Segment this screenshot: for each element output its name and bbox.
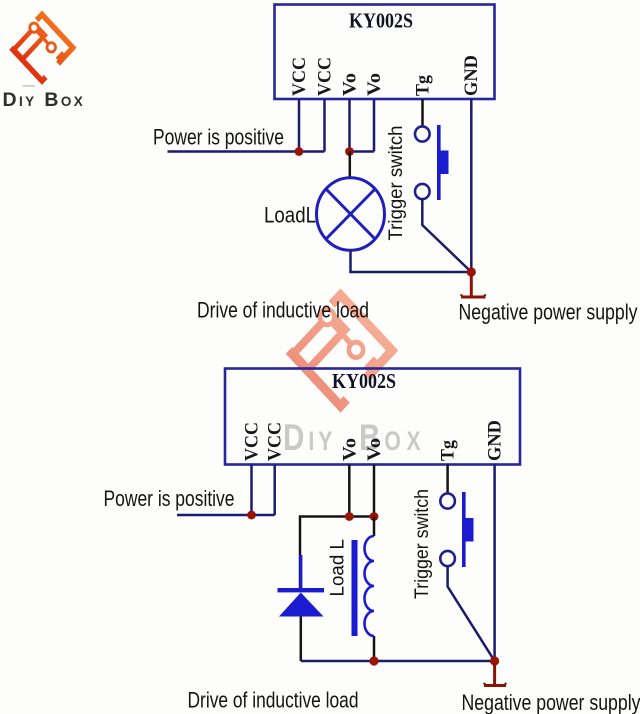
wire Vo2 drop U1 — [373, 99, 376, 152]
wire VCC1 drop U1 — [298, 99, 301, 152]
watermark logo mark (center) — [287, 292, 393, 406]
wire switch S1 bottom diagonal — [422, 199, 471, 272]
svg-text:Vo: Vo — [364, 438, 385, 461]
junction dot Vo1 (bottom) — [345, 512, 354, 521]
trigger switch S2 contact circles — [440, 493, 455, 566]
wire VCC1 drop U2 — [250, 465, 253, 516]
wire power bus bottom — [177, 514, 275, 517]
diode D1 flyback — [278, 555, 325, 617]
wire lamp feed — [349, 152, 352, 179]
wire switch S2 bottom diagonal — [448, 566, 495, 661]
trigger switch S1 contact circles — [415, 126, 430, 199]
wire power bus top — [168, 150, 325, 153]
wire GND drop U2 — [493, 465, 496, 662]
wire Vo2 drop U2 — [373, 465, 376, 517]
junction dot ground node (bottom) — [490, 656, 499, 665]
svg-text:Drive of inductive load: Drive of inductive load — [197, 298, 369, 323]
wire Vo1 drop U1 — [348, 99, 351, 152]
ground symbol (top) — [461, 274, 486, 297]
wire lamp bottom to ground bus — [351, 250, 472, 272]
junction dot ground node (top) — [467, 267, 476, 276]
svg-text:Tg: Tg — [413, 75, 434, 96]
svg-text:Vo: Vo — [364, 73, 385, 96]
svg-text:GND: GND — [485, 420, 506, 461]
trigger switch S2 actuator — [462, 492, 474, 567]
wire VCC2 drop U1 — [323, 99, 326, 152]
svg-text:VCC: VCC — [315, 57, 336, 96]
svg-text:Vo: Vo — [340, 438, 361, 461]
svg-text:LoadL: LoadL — [264, 203, 316, 228]
lamp Load L (circle-X) — [317, 178, 385, 251]
DiyBox logo mark top-left — [10, 13, 73, 81]
wire diode bottom lead — [300, 617, 303, 662]
svg-text:Negative power supply: Negative power supply — [462, 690, 640, 714]
svg-text:Trigger switch: Trigger switch — [412, 489, 433, 599]
DiyBox logo small dash — [23, 85, 36, 86]
ground symbol (bottom) — [484, 663, 507, 686]
junction dot inductor/ground bus — [369, 656, 378, 665]
svg-text:Drive of inductive load: Drive of inductive load — [188, 688, 359, 713]
wire ground bus bottom — [301, 660, 495, 663]
svg-text:Tg: Tg — [438, 440, 459, 461]
trigger switch S1 actuator — [437, 125, 449, 200]
wire Vo1 drop U2 — [348, 465, 351, 517]
wire Vo bus / diode branch top (bottom circuit) — [300, 517, 374, 589]
inductor L1 coil — [373, 517, 376, 662]
junction dot VCC1/power (bottom) — [247, 511, 256, 520]
junction dot Vo2 (bottom) — [370, 512, 379, 521]
svg-text:Vo: Vo — [340, 73, 361, 96]
svg-text:Negative power supply: Negative power supply — [459, 300, 638, 325]
inductor L1 core bar — [352, 540, 358, 636]
wire Vo bus top — [350, 150, 375, 153]
svg-text:Trigger switch: Trigger switch — [386, 126, 407, 241]
svg-text:KY002S: KY002S — [332, 369, 396, 393]
svg-text:VCC: VCC — [242, 422, 263, 461]
module U2 box KY002S — [225, 369, 520, 465]
svg-text:VCC: VCC — [289, 57, 310, 96]
svg-text:VCC: VCC — [265, 422, 286, 461]
svg-text:Power is positive: Power is positive — [104, 486, 235, 511]
module U1 box KY002S — [275, 5, 495, 100]
wire VCC2 drop U2 — [273, 465, 276, 516]
svg-text:Load L: Load L — [328, 539, 349, 597]
wire GND drop U1 — [470, 99, 473, 272]
svg-text:DIY BOX: DIY BOX — [3, 89, 86, 111]
svg-text:KY002S: KY002S — [349, 9, 413, 33]
wire Tg drop U1 — [421, 99, 424, 127]
wire Tg drop U2 — [446, 465, 449, 494]
junction dot Vo1/lamp — [345, 147, 354, 156]
svg-text:GND: GND — [461, 55, 482, 96]
inductor L1 coil arcs (blue) — [365, 536, 375, 636]
junction dot VCC1/power — [295, 147, 304, 156]
svg-text:Power is positive: Power is positive — [153, 125, 284, 150]
